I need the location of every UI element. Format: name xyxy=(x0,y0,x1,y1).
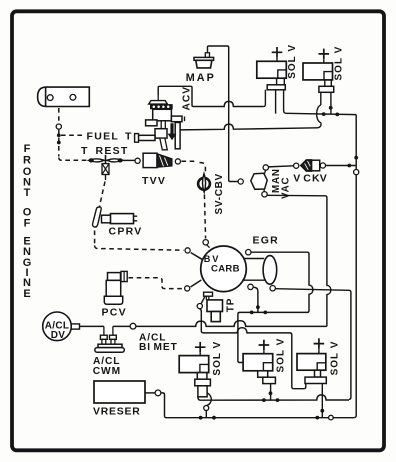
connector circle right of TVV xyxy=(175,159,180,164)
wire TVV to SV-CBV (dashed) xyxy=(182,161,206,172)
connector circle MAN VAC top port xyxy=(263,165,268,170)
manifold absolute pressure sensor MAP xyxy=(205,53,209,58)
carb bowl port stub xyxy=(201,293,207,304)
connector circle carb bottom starboard port xyxy=(248,284,253,289)
svg-text:V: V xyxy=(212,254,219,264)
caption FRONT OF ENGINE xyxy=(23,143,32,300)
solenoid valve SOL V top-1 electric terminal xyxy=(272,47,283,58)
A/CL DV outlet stub xyxy=(71,324,79,329)
connector circle left of TVV xyxy=(135,158,140,163)
connector circle VCK V outlet xyxy=(320,163,325,168)
connector circle on bottom bus xyxy=(329,415,334,420)
connector circle SOL V bottom-1 xyxy=(204,406,209,411)
junction dot on carb bottom port wire xyxy=(256,305,260,309)
fuel tank xyxy=(38,87,90,106)
air check valve ACV xyxy=(157,94,159,100)
wire bottom solenoid manifold line xyxy=(198,395,349,400)
svg-text:SV-CBV: SV-CBV xyxy=(214,173,225,214)
svg-text:BI: BI xyxy=(139,342,151,353)
connector circle on right riser xyxy=(354,170,359,175)
carburetor body BV CARB xyxy=(201,246,247,292)
carb to EGR neck xyxy=(242,259,264,281)
wire SOL V top-1 to right riser (line C) xyxy=(286,113,356,114)
junction dot SOL V top-2 pipe xyxy=(329,106,333,110)
wire T REST to CPRV to carburetor (dashed) xyxy=(99,182,105,208)
connector circle VCK V inlet xyxy=(294,163,299,168)
connector circle carb bowl port xyxy=(197,304,202,309)
junction dot SOL V bottom-3 wire xyxy=(320,409,324,413)
wire SOL V bottom-1 to bus connector xyxy=(207,393,211,406)
svg-text:T: T xyxy=(81,145,89,157)
port tick into carb (B V) xyxy=(191,253,203,260)
svg-text:FUEL: FUEL xyxy=(87,130,120,142)
wire MAP to MAN VAC xyxy=(208,46,239,182)
canister purge valve CPRV xyxy=(93,207,102,227)
carb top port stub xyxy=(207,245,210,248)
wire carb EGR port to mid-left riser (EGR control) xyxy=(238,252,313,362)
throttle positioner TP xyxy=(204,292,213,296)
wire carb bottom port jog xyxy=(253,287,258,312)
wire PCV to carburetor (dashed) xyxy=(129,278,184,289)
junction dot FUEL T branch xyxy=(57,133,61,137)
wire A/CL DV to BI MET connector xyxy=(80,325,131,327)
solenoid valve SOL V top-2 electric terminal xyxy=(319,49,330,60)
svg-text:SOL V: SOL V xyxy=(212,341,223,376)
ACV flow arrow xyxy=(168,123,177,140)
wire carb bowl port to bottom solenoid 3 (line L2) xyxy=(200,309,306,389)
solenoid valve SOL V top-1 body xyxy=(257,61,287,78)
EGR valve oval xyxy=(263,256,277,285)
label SOL V bottom-2 xyxy=(276,338,287,373)
svg-text:R: R xyxy=(23,155,31,167)
wire T REST to TVV xyxy=(123,159,135,161)
svg-text:B: B xyxy=(204,254,211,264)
wire FUEL T label branch (dashed) xyxy=(61,134,85,136)
svg-text:T: T xyxy=(24,187,31,199)
air cleaner diverter valve A/CL DV xyxy=(43,312,72,341)
label ACV xyxy=(182,86,193,111)
svg-text:SOL V: SOL V xyxy=(287,44,298,79)
svg-text:CARB: CARB xyxy=(211,264,240,275)
junction dot on right riser xyxy=(354,156,358,160)
svg-text:DV: DV xyxy=(51,330,66,341)
svg-text:VRESER: VRESER xyxy=(93,407,141,418)
svg-text:CPRV: CPRV xyxy=(109,226,143,238)
wire fuel tank to T REST (dashed) xyxy=(58,108,60,124)
wire SOL V top-1 left port down to ACV line xyxy=(263,90,265,107)
label SOL V top-2 xyxy=(334,46,345,81)
connector circle on fuel tank line xyxy=(56,124,61,129)
wire ACV to SOL V top-1 (line A) xyxy=(158,86,263,106)
carb PCV port tick xyxy=(191,280,202,287)
label MAN VAC xyxy=(271,168,282,193)
thermal vent valve TVV xyxy=(143,153,157,167)
connector circle VRESER xyxy=(155,390,161,396)
wire SOL V top-2 left port crossover down to ACV side line xyxy=(317,105,321,128)
wire BI MET to MAN VAC riser (line L1) xyxy=(136,321,327,327)
connector circle A/CL BI MET xyxy=(130,323,136,329)
wire SOL V bottom-3 to bus xyxy=(321,384,323,418)
connector circle at carb B V port xyxy=(185,248,190,253)
connector circle MAP line at MAN VAC xyxy=(238,179,243,184)
svg-text:V: V xyxy=(293,173,301,185)
solenoid valve SOL V top-1 pipe xyxy=(276,90,287,114)
wire MAN VAC to A/CL DV line (mid riser) xyxy=(267,195,331,326)
connector circle carb PCV port xyxy=(185,286,190,291)
wire SOL V bottom-2 to manifold line xyxy=(270,384,272,401)
svg-text:MAP: MAP xyxy=(186,72,216,84)
junction dots on solenoid manifold line xyxy=(262,398,266,402)
vacuum reservoir VRESER xyxy=(94,381,145,403)
solenoid valve SOL V top-1 outlet fitting xyxy=(267,85,285,90)
svg-text:V: V xyxy=(320,173,328,185)
restrictor hourglass below T REST xyxy=(102,164,109,175)
fuel tank fitting circles xyxy=(47,95,53,101)
svg-text:EGR: EGR xyxy=(253,234,280,246)
positive crankcase ventilation valve PCV xyxy=(108,273,121,281)
wire VRESER to connector xyxy=(145,392,155,394)
solenoid valve SOL V (bottom middle) xyxy=(259,340,270,351)
solenoid valve SOL V (bottom left) xyxy=(195,342,206,353)
svg-text:TVV: TVV xyxy=(142,175,166,187)
svg-text:SOL V: SOL V xyxy=(276,338,287,373)
wire VCK V to right riser xyxy=(326,165,357,167)
svg-text:F: F xyxy=(24,143,31,155)
vacuum check valve VCK V xyxy=(301,160,312,171)
label TP xyxy=(226,298,237,313)
svg-text:PCV: PCV xyxy=(102,306,128,318)
connector circle MAN VAC bottom port xyxy=(262,192,267,197)
solenoid valve SOL V (bottom right) xyxy=(314,338,325,349)
wire EGR oval to bottom right drop xyxy=(275,289,351,400)
solenoid valve SOL V top-2 pipe xyxy=(321,92,331,114)
junction dot VCK V line xyxy=(347,164,351,168)
wire MAN VAC to VCK V xyxy=(268,166,293,167)
svg-text:ACV: ACV xyxy=(182,86,193,111)
wire SV-CBV to carb top (dashed) xyxy=(204,195,205,239)
label SOL V bottom-3 xyxy=(330,341,341,376)
wire right riser (line C down to bottom bus) xyxy=(354,115,356,418)
svg-text:MET: MET xyxy=(154,342,178,353)
connector circle carb EGR top port xyxy=(246,250,251,255)
svg-text:CK: CK xyxy=(303,173,320,185)
connector circle at carb top port xyxy=(203,240,208,245)
wire bottom bus xyxy=(167,417,355,419)
svg-text:SOL V: SOL V xyxy=(334,46,345,81)
label SV-CBV xyxy=(214,173,225,214)
solenoid valve SOL V top-2 body xyxy=(303,63,333,80)
air cleaner cold weather modulator A/CL CWM xyxy=(104,326,113,335)
tee fitting T REST xyxy=(89,159,123,162)
svg-text:CWM: CWM xyxy=(93,366,121,377)
connector circle EGR oval bottom port xyxy=(270,286,275,291)
label SOL V bottom-1 xyxy=(212,341,223,376)
junction dots on line C xyxy=(322,112,326,116)
svg-text:REST: REST xyxy=(96,145,129,157)
svg-text:E: E xyxy=(23,288,30,300)
label SOL V top-1 xyxy=(287,44,298,79)
solenoid vent / carb bowl vent valve SV-CBV xyxy=(198,178,210,190)
wire SOL V top-2 to ACV side port (line B) xyxy=(180,124,317,130)
svg-text:T: T xyxy=(125,130,133,142)
junction dots on bottom bus xyxy=(199,416,203,420)
solenoid valve SOL V top-2 outlet fitting xyxy=(319,86,334,92)
svg-text:F: F xyxy=(24,218,31,230)
junction dots on carb-bottom feed line xyxy=(250,311,254,315)
svg-text:SOL V: SOL V xyxy=(330,341,341,376)
manifold vacuum fitting MAN VAC xyxy=(251,173,267,189)
wire VRESER to bottom bus xyxy=(161,393,167,418)
junction dot SOL V bottom-2 wire xyxy=(269,391,273,395)
svg-text:TP: TP xyxy=(226,298,237,313)
